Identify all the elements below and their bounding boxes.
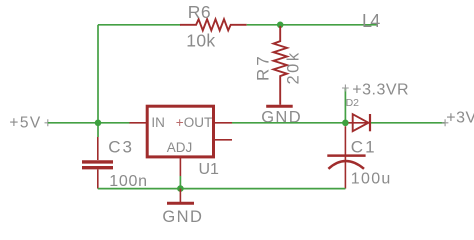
svg-text:C3: C3 bbox=[108, 137, 134, 156]
capacitor C3 bbox=[82, 137, 113, 189]
svg-text:+OUT: +OUT bbox=[176, 115, 212, 130]
svg-text:D2: D2 bbox=[346, 97, 360, 109]
pin stub NC (lower right) bbox=[214, 139, 233, 141]
pin stub ADJ bbox=[179, 157, 181, 176]
svg-text:ADJ: ADJ bbox=[167, 140, 193, 155]
wire top rail to R6 bbox=[98, 24, 181, 26]
wire bottom rail bbox=[98, 188, 346, 190]
wire ADJ to bottom rail bbox=[179, 176, 181, 189]
svg-text:GND: GND bbox=[162, 208, 203, 226]
svg-text:+3.3VR: +3.3VR bbox=[352, 82, 409, 99]
svg-text:R6: R6 bbox=[188, 2, 211, 22]
wire R6 to junction bbox=[247, 24, 281, 26]
svg-text:10k: 10k bbox=[186, 31, 215, 51]
svg-text:100u: 100u bbox=[351, 171, 392, 188]
svg-text:IN: IN bbox=[151, 115, 165, 130]
wire junction up to +3.3VR bbox=[344, 88, 346, 123]
svg-text:+5V: +5V bbox=[9, 115, 41, 132]
wire junction to U1 IN bbox=[98, 122, 130, 124]
junction ADJ/GND bbox=[177, 185, 184, 192]
junction R6/R7 bbox=[277, 22, 284, 29]
capacitor C1 bbox=[327, 126, 365, 188]
wire diode to +3V bbox=[371, 122, 445, 124]
svg-text:R7: R7 bbox=[254, 53, 273, 81]
junction +5V/C3 bbox=[95, 120, 102, 127]
net label +5V bbox=[9, 115, 51, 132]
svg-text:C1: C1 bbox=[351, 137, 377, 156]
net label +3V bbox=[442, 109, 474, 126]
pin stub IN bbox=[130, 122, 148, 124]
svg-text:GND: GND bbox=[261, 109, 302, 127]
svg-text:+3V: +3V bbox=[446, 109, 474, 126]
resistor R7 bbox=[274, 26, 288, 105]
voltage regulator U1 box bbox=[147, 106, 213, 157]
svg-text:20k: 20k bbox=[285, 50, 303, 84]
junction diode/C1 bbox=[342, 120, 349, 127]
svg-text:100n: 100n bbox=[109, 173, 147, 190]
resistor R6 bbox=[180, 19, 247, 30]
svg-text:U1: U1 bbox=[199, 161, 220, 178]
wire OUT to diode junction bbox=[232, 122, 345, 124]
ground symbol GND (below R7) bbox=[261, 106, 302, 126]
pin stub OUT bbox=[214, 122, 233, 124]
ground symbol GND (below U1) bbox=[162, 189, 203, 226]
net label +3.3VR bbox=[342, 82, 409, 99]
wire +5V to junction bbox=[48, 122, 98, 124]
diode D2 bbox=[349, 114, 371, 131]
wire junction to L4 bbox=[280, 24, 378, 26]
svg-text:L4: L4 bbox=[362, 11, 380, 31]
wire vertical riser x=98 bbox=[97, 25, 99, 137]
